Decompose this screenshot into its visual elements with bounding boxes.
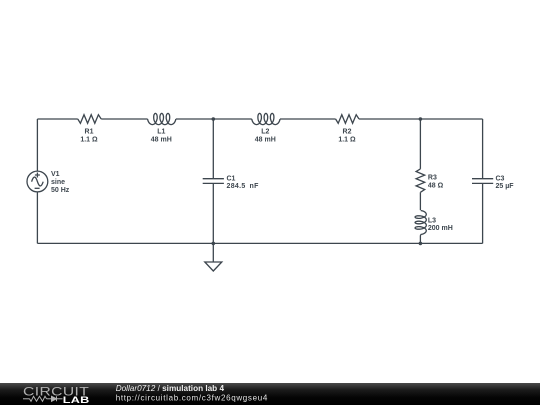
ground stub	[212, 243, 214, 262]
wire: C3 bottom lead	[482, 183, 484, 243]
wire: L1 to L2	[176, 118, 252, 120]
svg-text:L3: L3	[428, 218, 436, 225]
logo wire middle	[47, 398, 52, 400]
svg-text:284.5 nF: 284.5 nF	[227, 183, 260, 190]
svg-text:48 Ω: 48 Ω	[428, 183, 444, 190]
logo diode triangle	[52, 396, 57, 401]
ground symbol	[205, 262, 222, 271]
V1 plus sign	[35, 173, 40, 178]
CircuitLab logo wire-resistor-diode	[23, 396, 63, 401]
wire: C1 bottom lead	[212, 183, 214, 243]
wire: R3 branch top lead	[419, 119, 421, 169]
logo resistor zigzag	[30, 396, 47, 401]
V1 sine squiggle	[32, 177, 44, 186]
wire: R3 to L3	[419, 192, 421, 210]
logo diode bar	[56, 396, 58, 401]
wire: L3 bottom lead	[419, 235, 421, 244]
svg-text:48 mH: 48 mH	[255, 137, 276, 144]
svg-text:L2: L2	[261, 128, 269, 135]
wire: R2 to top-right corner	[359, 118, 483, 120]
resistor R1	[78, 115, 101, 124]
svg-text:R1: R1	[85, 128, 94, 135]
inductor L3 (vertical)	[415, 211, 426, 235]
wire: left vertical (top wire to V1)	[36, 119, 38, 171]
inductor L1	[148, 113, 176, 124]
svg-text:1.1 Ω: 1.1 Ω	[80, 137, 98, 144]
wire: bottom horizontal	[37, 242, 482, 244]
svg-text:C3: C3	[496, 175, 505, 182]
svg-text:1.1 Ω: 1.1 Ω	[338, 137, 356, 144]
V1 minus sign	[35, 187, 40, 189]
svg-text:R2: R2	[343, 128, 352, 135]
logo wire left	[23, 398, 30, 400]
capacitor C3 plates	[472, 179, 493, 184]
svg-text:200 mH: 200 mH	[428, 225, 453, 232]
label R1 value	[80, 128, 98, 143]
svg-text:C1: C1	[227, 175, 236, 182]
logo wire right	[57, 398, 63, 400]
svg-text:sine: sine	[51, 179, 65, 186]
voltage source V1 circle	[27, 171, 48, 192]
wire: C1 top lead	[212, 119, 214, 179]
wire: R1 to L1	[101, 118, 147, 120]
label L1 value	[151, 128, 172, 143]
svg-text:50 Hz: 50 Hz	[51, 187, 70, 194]
label R2 value	[338, 128, 356, 143]
svg-text:48 mH: 48 mH	[151, 137, 172, 144]
resistor R3 (vertical)	[416, 169, 425, 192]
node: R3/bottom junction	[419, 242, 423, 246]
footer bar	[0, 383, 540, 405]
wire: top-left horizontal segment	[37, 118, 77, 120]
wire: right vertical top (to C3)	[482, 119, 484, 179]
wire: V1 to bottom-left corner	[36, 192, 38, 244]
svg-text:L1: L1	[157, 128, 165, 135]
svg-text:V1: V1	[51, 171, 60, 178]
svg-text:R3: R3	[428, 175, 437, 182]
node: C1/top junction	[212, 117, 216, 121]
inductor L2	[252, 113, 280, 124]
resistor R2	[336, 115, 359, 124]
node: C1/bottom junction	[212, 242, 216, 246]
wire: L2 to R2	[280, 118, 336, 120]
capacitor C1 plates	[203, 179, 224, 184]
node: R3/top junction	[419, 117, 423, 121]
svg-text:25 µF: 25 µF	[496, 183, 515, 190]
label L2 value	[255, 128, 276, 143]
